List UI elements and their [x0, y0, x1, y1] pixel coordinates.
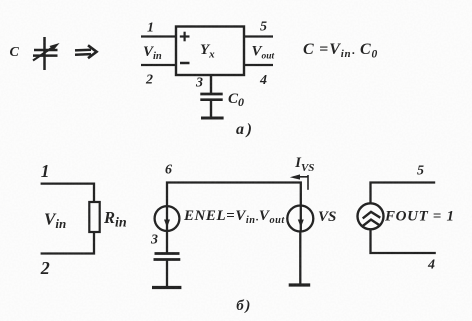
capacitor (node3)	[154, 254, 181, 288]
resistor Rin	[89, 202, 99, 232]
minus sign	[180, 62, 190, 65]
VS arrow through	[298, 206, 304, 232]
pin 4 wire	[244, 64, 273, 66]
wire circle to cap	[166, 232, 168, 254]
ground bar (VS)	[289, 283, 311, 286]
top wire node5	[371, 183, 436, 204]
pin 3 wire	[210, 75, 212, 94]
variable capacitor symbol	[33, 37, 60, 70]
top wire 6 to VS	[167, 183, 301, 206]
pin 1 wire	[141, 35, 176, 37]
ground bar (middle)	[152, 286, 181, 289]
ENEL arrow through	[164, 205, 170, 232]
block U Yx	[176, 27, 244, 76]
ground bar (C0)	[201, 117, 224, 120]
plus sign	[180, 32, 190, 42]
pin 5 wire	[244, 35, 273, 37]
capacitor C0	[200, 94, 222, 118]
pin 2 wire	[141, 64, 176, 66]
wire bottom (resistor to node2)	[41, 232, 94, 254]
wire top (node1 to resistor)	[41, 184, 94, 202]
bottom wire node4	[371, 229, 436, 253]
wire VS to ground	[299, 232, 301, 286]
implies arrow	[75, 45, 97, 58]
FOUT chevrons	[363, 212, 381, 226]
source VS circle	[287, 206, 313, 232]
source FOUT circle	[358, 203, 384, 229]
source ENEL circle	[155, 206, 180, 231]
IVS current arrow	[290, 174, 308, 189]
